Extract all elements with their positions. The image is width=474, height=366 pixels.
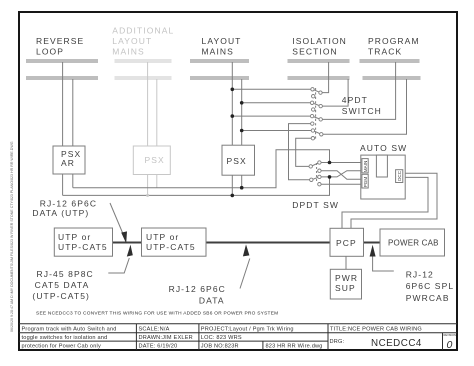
leader from PCP wire to RJ-12 SPL label	[373, 257, 394, 272]
wire PCP to POWER CAB	[364, 242, 381, 244]
svg-text:MAINS: MAINS	[202, 47, 234, 57]
title block sub column row3	[262, 341, 264, 350]
DPDT pole2 common contact	[310, 178, 313, 181]
wire 4PDT pole1 common to isolation rail1	[321, 62, 329, 93]
wire 4PDT pole4 common to program rail2	[321, 79, 406, 134]
wire PCP to PWR SUP	[345, 256, 347, 269]
svg-text:0: 0	[447, 339, 453, 351]
junction dot layout mains pole3	[231, 114, 235, 118]
svg-text:PROJECT:Layout / Pgm Trk Wirin: PROJECT:Layout / Pgm Trk Wiring	[201, 327, 294, 333]
svg-text:TITLE:NCE POWER CAB WIRING: TITLE:NCE POWER CAB WIRING	[330, 327, 422, 333]
svg-text:SCALE:N/A: SCALE:N/A	[139, 327, 170, 333]
lever DPDT pole2	[311, 177, 319, 180]
4PDT mechanical link (dashed)	[315, 88, 317, 140]
svg-text:PROGRAM: PROGRAM	[368, 36, 420, 46]
isolation section rail pair 1	[287, 59, 349, 61]
wire 4PDT pole1 input from layout mains	[232, 88, 312, 90]
program track rail pair 1	[360, 59, 420, 61]
svg-text:NCEDCC4: NCEDCC4	[371, 338, 422, 349]
wire 4PDT pole2 common to isolation rail2	[321, 79, 348, 106]
leader to bus from RJ-12 DATA label	[240, 259, 250, 289]
wire additional mains rail1 to bus2 (gray)	[147, 62, 149, 195]
lever 4PDT pole2	[312, 103, 321, 106]
title block column line 3	[327, 324, 329, 350]
lever 4PDT pole1	[313, 89, 321, 92]
additional layout mains rail pair 2 (gray)	[115, 76, 172, 78]
svg-text:SEE NCEDCC3 TO CONVERT THIS WI: SEE NCEDCC3 TO CONVERT THIS WIRING FOR U…	[36, 311, 278, 317]
wire track bus 1 (upper) to DPDT top throw	[73, 150, 330, 188]
svg-text:toggle switches for isolation: toggle switches for isolation and	[22, 335, 108, 341]
svg-text:SWITCH: SWITCH	[342, 106, 382, 116]
title block column line 2	[198, 324, 200, 350]
svg-text:Program track with Auto Switch: Program track with Auto Switch and	[22, 327, 117, 333]
svg-text:PGM: PGM	[363, 177, 368, 188]
svg-text:PSX: PSX	[145, 155, 165, 165]
wire 4PDT pole2 input from layout mains	[242, 102, 312, 104]
svg-text:POWER CAB: POWER CAB	[388, 239, 439, 248]
AUTO SW MAIN port	[362, 159, 368, 173]
DPDT pole2 bottom throw contact	[318, 183, 321, 186]
revision box line	[442, 333, 444, 350]
layout mains rail pair 2	[190, 76, 249, 78]
svg-text:DATA: DATA	[199, 296, 225, 306]
UTP box 2	[142, 228, 207, 256]
DPDT pole1 bottom throw contact	[318, 169, 321, 172]
4PDT pole4 off contact	[311, 137, 314, 140]
AUTO SW DCC port	[396, 170, 403, 183]
junction dot bus2	[231, 194, 235, 198]
wire additional mains rail2 to bus1 (gray)	[156, 79, 158, 188]
svg-text:PCP: PCP	[336, 238, 357, 248]
svg-text:DCC: DCC	[397, 170, 402, 181]
svg-text:SECTION: SECTION	[292, 47, 337, 57]
4PDT pole1 common contact	[319, 91, 322, 94]
junction dot DPDT pole2 top throw	[328, 175, 332, 179]
svg-text:JOB NO:823R: JOB NO:823R	[201, 344, 239, 350]
UTP box 1	[54, 228, 112, 256]
4PDT pole4 common contact	[320, 133, 323, 136]
svg-text:DRAWN:JIM EXLER: DRAWN:JIM EXLER	[139, 335, 193, 341]
4PDT pole2 off contact	[312, 108, 315, 111]
svg-text:UTP or: UTP or	[58, 232, 91, 242]
wire track bus 2 (lower) to DPDT pole2 top throw	[63, 177, 330, 196]
svg-text:TRACK: TRACK	[368, 47, 402, 57]
svg-text:LAYOUT: LAYOUT	[112, 36, 152, 46]
PWR SUP box	[330, 269, 361, 299]
junction dot bus2 gray	[146, 194, 149, 197]
DPDT mechanical link (dashed)	[316, 163, 318, 182]
svg-text:LOOP: LOOP	[36, 47, 64, 57]
svg-text:LAYOUT: LAYOUT	[202, 36, 242, 46]
AUTO SW PGM port	[362, 174, 368, 188]
wire DPDT pole1 bottom throw to AUTO SW PGM (crossover)	[319, 171, 362, 180]
leader to bus from RJ-12 UTP label	[110, 203, 124, 235]
svg-text:PSX: PSX	[227, 156, 247, 166]
wire layout mains rail1 down to bus2	[231, 62, 233, 195]
svg-text:RJ-12 6P6C: RJ-12 6P6C	[40, 199, 97, 209]
title block column line 1	[135, 324, 137, 350]
4PDT pole4 throw contact	[311, 129, 314, 132]
svg-text:REVERSE: REVERSE	[36, 36, 84, 46]
svg-text:MAIN: MAIN	[363, 161, 368, 172]
reverse loop rail pair 1	[26, 59, 98, 61]
additional layout mains rail pair 1 (gray)	[115, 59, 172, 61]
wire data bus UTP box1 to box2	[113, 242, 142, 244]
svg-text:AUTO SW: AUTO SW	[360, 143, 407, 153]
4PDT pole3 throw contact	[310, 114, 313, 117]
4PDT pole1 off contact	[312, 95, 315, 98]
PSX layout mains box	[222, 145, 255, 175]
svg-text:(UTP-CAT5): (UTP-CAT5)	[32, 291, 90, 301]
svg-text:6P6C SPL: 6P6C SPL	[406, 281, 455, 291]
wire 4PDT pole3 lower throw to DPDT pole2 common	[289, 124, 313, 180]
svg-text:UTP-CAT5: UTP-CAT5	[146, 242, 196, 252]
svg-text:LOC: 823 WRS: LOC: 823 WRS	[201, 335, 242, 341]
wire layout mains rail2 down to bus1	[241, 79, 243, 188]
svg-text:CAT5 DATA: CAT5 DATA	[35, 280, 90, 290]
4PDT pole2 throw contact	[310, 101, 313, 104]
isolation section rail pair 2	[287, 76, 349, 78]
leader to bus from RJ-45 label	[108, 258, 129, 273]
lever 4PDT pole3	[312, 116, 321, 119]
svg-text:DATE: 6/19/20: DATE: 6/19/20	[139, 344, 178, 350]
4PDT pole3 off contact	[311, 122, 314, 125]
PSX AR box	[53, 146, 85, 174]
PSX additional box (gray)	[133, 146, 170, 175]
wire 4PDT pole3 input from layout mains	[232, 115, 312, 117]
junction dot layout mains pole4	[240, 129, 244, 133]
title block row line 1	[19, 332, 457, 334]
svg-text:REVISION: REVISION	[444, 333, 457, 337]
wire AUTO SW DCC output B to PCP	[342, 177, 428, 228]
AUTO SW box	[361, 155, 405, 199]
DPDT pole1 common contact	[309, 165, 312, 168]
svg-text:DRG:: DRG:	[330, 339, 345, 345]
title block top line	[19, 323, 457, 325]
junction dot DPDT top throw	[328, 161, 332, 165]
lever DPDT pole1	[311, 163, 320, 167]
wire DPDT pole2 bottom throw to AUTO SW PGM	[319, 183, 362, 185]
PCP box	[330, 228, 364, 256]
wire data bus UTP box2 to PCP	[206, 242, 330, 244]
layout mains rail pair 1	[190, 59, 249, 61]
svg-text:RJ-12 6P6C: RJ-12 6P6C	[169, 284, 226, 294]
svg-text:SUP: SUP	[335, 283, 356, 293]
svg-text:823 HR RR Wire.dwg: 823 HR RR Wire.dwg	[266, 344, 323, 350]
program track rail pair 2	[362, 76, 420, 78]
POWER CAB box	[380, 229, 445, 256]
junction dot layout mains pole2	[240, 101, 244, 105]
svg-text:MAINS: MAINS	[112, 47, 144, 57]
svg-text:ISOLATION: ISOLATION	[292, 36, 347, 46]
wire AUTO SW DCC output A to PCP	[351, 173, 437, 228]
4PDT pole2 common contact	[319, 104, 322, 107]
wire reverse loop rail1 to bus2	[62, 62, 64, 195]
svg-text:ADDITIONAL: ADDITIONAL	[112, 26, 174, 36]
svg-text:RJ-12: RJ-12	[406, 270, 434, 280]
svg-text:PWRCAB: PWRCAB	[406, 293, 450, 303]
svg-text:PWR: PWR	[335, 273, 358, 283]
svg-text:UTP-CAT5: UTP-CAT5	[58, 242, 108, 252]
DPDT pole2 top throw contact	[318, 175, 321, 178]
svg-text:protection for Power Cab only: protection for Power Cab only	[22, 344, 102, 350]
wire 4PDT pole3 common to program rail1	[321, 62, 396, 119]
4PDT pole3 common contact	[319, 118, 322, 121]
wire reverse loop rail2 to bus1	[72, 79, 74, 188]
4PDT pole1 throw contact	[311, 88, 314, 91]
svg-text:4PDT: 4PDT	[342, 95, 368, 105]
svg-text:DATA (UTP): DATA (UTP)	[32, 208, 89, 218]
svg-text:RJ-45 8P8C: RJ-45 8P8C	[37, 269, 94, 279]
reverse loop rail pair 2	[26, 76, 98, 78]
AUTO SW internal module	[376, 155, 387, 177]
svg-text:AR: AR	[61, 158, 75, 168]
junction dot bus1	[240, 186, 244, 190]
svg-text:UTP or: UTP or	[146, 232, 179, 242]
wire DPDT pole2 top throw to AUTO SW MAIN (crossover)	[319, 171, 362, 177]
junction dot layout mains pole1	[231, 88, 235, 92]
DPDT pole1 top throw contact	[318, 161, 321, 164]
title block row line 2	[19, 340, 328, 342]
wire 4PDT pole4 input from layout mains	[242, 130, 313, 132]
lever 4PDT pole4	[313, 131, 321, 135]
svg-text:06/20/20 9:28:47 AM D:\MY: 06/20/20 9:28:47 AM D:\MY DOCUMENTS\JIM …	[10, 141, 14, 332]
wire DPDT pole1 top throw to AUTO SW MAIN	[319, 162, 362, 164]
svg-text:DPDT SW: DPDT SW	[292, 200, 339, 210]
wire 4PDT pole4 lower throw to DPDT pole1 common	[296, 138, 313, 166]
